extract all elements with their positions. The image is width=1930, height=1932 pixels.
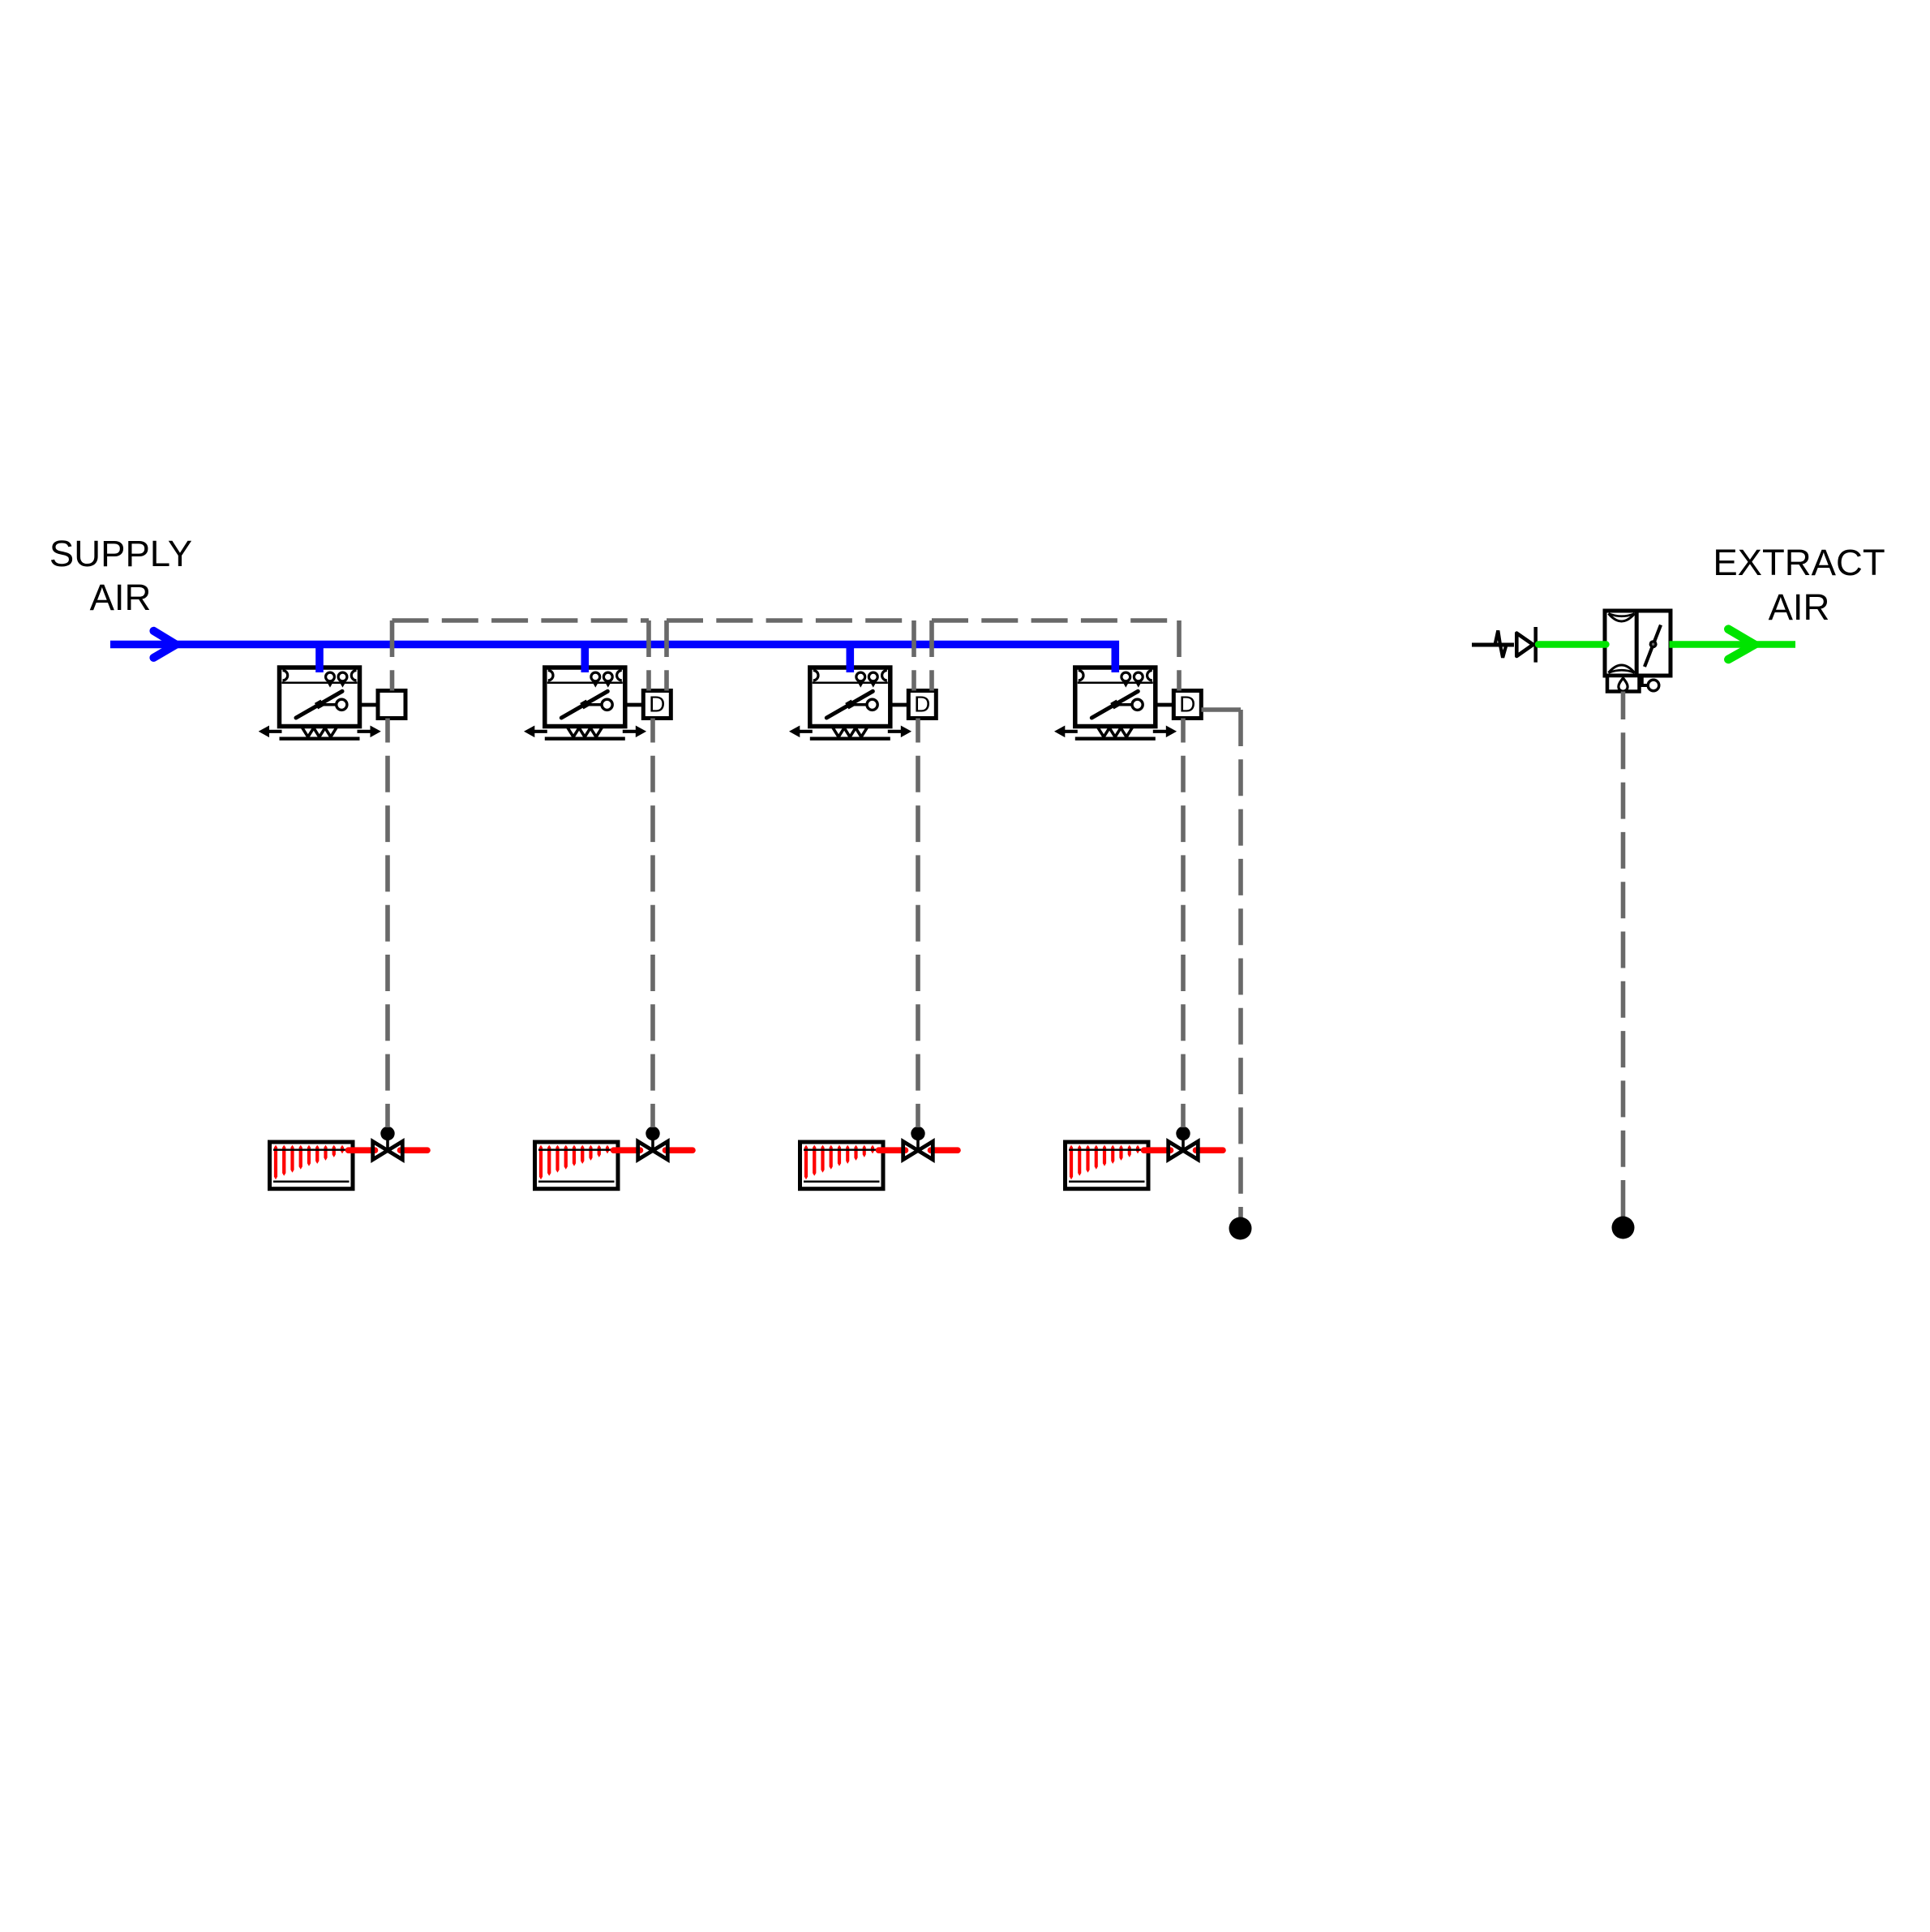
- control signal bridge 3 (dashed gray): [932, 620, 1179, 691]
- radiator control valve 2: [638, 1137, 668, 1160]
- controller square box unit 1 (blank): [378, 691, 405, 719]
- radiator 2: [535, 1142, 619, 1189]
- non-return damper seat bar: [1533, 627, 1538, 663]
- actuator connector line unit 1: [360, 703, 379, 707]
- radiator control valve 4: [1169, 1137, 1199, 1160]
- extract inlet line (black): [1472, 643, 1514, 647]
- VAV terminal unit box 2: [524, 668, 646, 739]
- VAV terminal unit box 4: [1054, 668, 1177, 739]
- hot water pipe 4 (red, into valve): [1144, 1147, 1171, 1153]
- room sensor drop line (dashed gray, unit 4): [1238, 710, 1243, 1217]
- control signal bridge 2 (dashed gray): [667, 620, 914, 691]
- label EXTRACT AIR: [1713, 542, 1885, 628]
- actuator connector line unit 3: [890, 703, 909, 707]
- controller square box unit 2 with letter D: [643, 691, 671, 719]
- radiator control valve 1: [373, 1137, 403, 1160]
- fan accessory circle: [1642, 676, 1649, 685]
- valve actuator dot 4: [1176, 1127, 1190, 1140]
- valve actuator dot 1: [380, 1127, 394, 1140]
- blue branch tap unit 3: [847, 645, 855, 672]
- radiator 3: [800, 1142, 884, 1189]
- svg-text:AIR: AIR: [90, 577, 152, 618]
- valve actuator dot 3: [911, 1127, 924, 1140]
- svg-text:D: D: [649, 692, 665, 717]
- actuator connector line unit 2: [625, 703, 644, 707]
- hot water pipe 2 (red, into valve): [614, 1147, 641, 1153]
- control drop line to valve 4 (dashed gray): [1181, 719, 1186, 1128]
- room sensor dot (left): [1229, 1217, 1252, 1240]
- blue branch tap unit 1: [315, 645, 324, 672]
- non-return damper (triangle): [1516, 633, 1533, 656]
- control signal bridge 1 (dashed gray): [392, 620, 650, 691]
- supply air duct (blue main line with end turn-down): [110, 645, 1115, 673]
- svg-text:D: D: [1179, 692, 1195, 717]
- radiator 4: [1066, 1142, 1149, 1189]
- extract sensor drop line (dashed gray): [1621, 692, 1626, 1217]
- extract fan unit box: [1605, 611, 1671, 676]
- control drop line to valve 3 (dashed gray): [916, 719, 920, 1128]
- flexible connection zigzag: [1495, 630, 1507, 657]
- valve actuator dot 2: [645, 1127, 659, 1140]
- VAV terminal unit box 3: [789, 668, 911, 739]
- hot water pipe 3 (red, out of valve): [931, 1147, 959, 1153]
- fan damper blade: [1645, 625, 1661, 668]
- svg-text:AIR: AIR: [1769, 586, 1830, 628]
- VAV terminal unit box 1: [259, 668, 381, 739]
- control drop line to valve 2 (dashed gray): [650, 719, 655, 1128]
- controller 4 output elbow (gray): [1202, 707, 1242, 712]
- condensate drain box: [1607, 676, 1640, 692]
- supply air flow arrow (blue chevron): [153, 631, 176, 658]
- actuator connector line unit 4: [1156, 703, 1174, 707]
- svg-text:EXTRACT: EXTRACT: [1713, 542, 1885, 583]
- extract air line left (green): [1538, 641, 1606, 647]
- hot water pipe 3 (red, into valve): [879, 1147, 906, 1153]
- blue branch tap unit 2: [581, 645, 589, 672]
- hot water pipe 1 (red, into valve): [349, 1147, 375, 1153]
- extract air flow arrow (green chevron): [1728, 629, 1754, 659]
- label SUPPLY AIR: [49, 533, 192, 618]
- hot water pipe 4 (red, out of valve): [1196, 1147, 1224, 1153]
- controller square box unit 3 with letter D: [908, 691, 936, 719]
- extract room sensor dot: [1612, 1217, 1635, 1239]
- radiator control valve 3: [903, 1137, 933, 1160]
- droplet icon: [1619, 678, 1628, 691]
- hot water pipe 2 (red, out of valve): [666, 1147, 693, 1153]
- svg-text:D: D: [914, 692, 930, 717]
- hot water pipe 1 (red, out of valve): [401, 1147, 428, 1153]
- svg-text:SUPPLY: SUPPLY: [49, 533, 192, 574]
- extract air line right (green): [1670, 641, 1796, 647]
- radiator 1: [270, 1142, 354, 1189]
- control drop line to valve 1 (dashed gray): [385, 719, 390, 1128]
- controller square box unit 4 with letter D: [1173, 691, 1201, 719]
